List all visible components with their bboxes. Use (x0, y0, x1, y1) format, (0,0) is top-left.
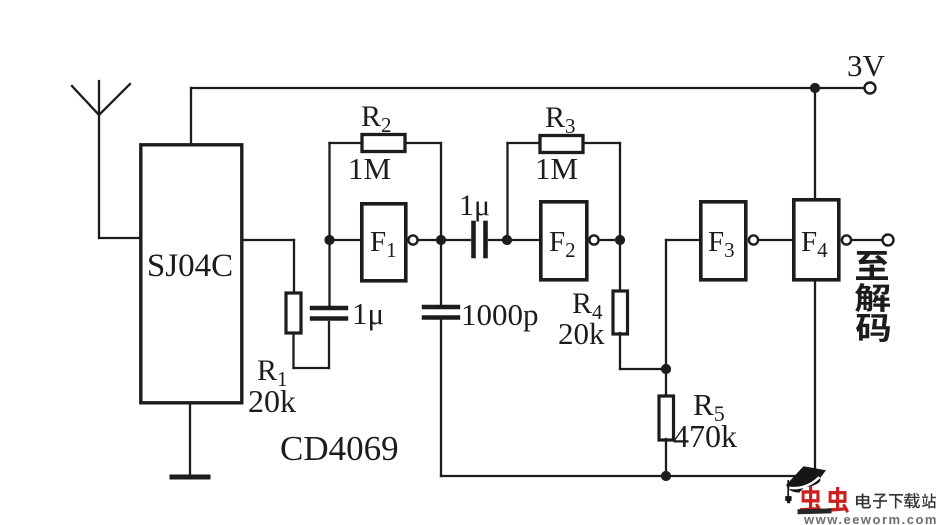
resistor R3 (540, 136, 583, 153)
wire F3 to F4 (759, 239, 792, 241)
wire C2 to bottom rail (440, 320, 442, 477)
wire R2 to node B (405, 143, 441, 240)
wire C3 to node C (489, 239, 539, 241)
svg-text:1μ: 1μ (352, 296, 384, 331)
node B (436, 235, 446, 245)
wire bottom rail (441, 475, 815, 477)
node power rail to F4 supply (810, 83, 820, 93)
label R1 (257, 354, 288, 391)
label R2 (361, 100, 392, 137)
wire F3 input (666, 240, 699, 369)
capacitor C2 1000p (424, 240, 458, 318)
wire antenna to SJ04C (99, 237, 141, 239)
bubble F4 output (842, 235, 851, 244)
svg-text:20k: 20k (248, 383, 296, 419)
label C3 1u (459, 189, 490, 222)
watermark text 电子下载站 (856, 493, 936, 509)
label C1 1u (352, 296, 384, 331)
resistor R5 (659, 396, 674, 440)
svg-text:CD4069: CD4069 (280, 429, 399, 468)
wire node A to R2 loop (330, 143, 362, 240)
watermark logo graduation cap (785, 466, 826, 503)
wire SJ04C output to R1 (243, 240, 294, 292)
inverter F1 (362, 204, 406, 281)
watermark logo 虫虫 (797, 486, 849, 514)
svg-text:www.eeworm.com: www.eeworm.com (803, 512, 937, 525)
label R5 value 470k (673, 418, 737, 454)
wire R1 to C1 junction (294, 322, 330, 368)
inverter F3 (701, 202, 746, 280)
wire node D to R4 (619, 240, 621, 291)
label C2 1000p (461, 297, 539, 332)
wire node C to R3 loop (508, 143, 540, 240)
watermark text www.eeworm.com (803, 512, 937, 525)
bubble F1 output (408, 235, 417, 244)
ground (172, 403, 208, 477)
svg-text:1M: 1M (535, 151, 578, 186)
wire R3 to node D (583, 143, 620, 240)
label to decoder 至 (856, 251, 888, 280)
svg-text:SJ04C: SJ04C (147, 248, 233, 284)
node G bottom rail right (810, 471, 820, 481)
wire 3V power rail (191, 88, 863, 143)
label 3V (847, 48, 886, 83)
capacitor C1 1u shunt (312, 308, 346, 319)
node A F1 input (324, 235, 334, 245)
svg-text:470k: 470k (673, 418, 737, 454)
wire C1 to node A (328, 240, 330, 306)
terminal output to decoder (883, 235, 894, 246)
svg-text:1μ: 1μ (459, 189, 490, 222)
resistor R2 (362, 135, 405, 152)
svg-text:1M: 1M (348, 151, 391, 186)
node E (661, 364, 671, 374)
wire F1 input (330, 239, 361, 241)
svg-text:3V: 3V (847, 48, 886, 83)
wire power to F4 (814, 88, 816, 199)
wire F2 output (599, 239, 620, 241)
label CD4069 (280, 429, 399, 468)
svg-text:1000p: 1000p (461, 297, 539, 332)
IC SJ04C (141, 145, 242, 403)
wire F4 to output terminal (852, 239, 882, 241)
label R4 (572, 287, 603, 324)
svg-text:20k: 20k (558, 316, 605, 351)
label R1 value 20k (248, 383, 296, 419)
inverter F2 (541, 202, 587, 280)
terminal 3V (865, 83, 876, 94)
wire F1 output (418, 239, 470, 241)
bubble F3 output (749, 235, 758, 244)
capacitor C3 1u series (474, 223, 486, 256)
wire F4 to bottom rail (814, 281, 816, 476)
wire node E to R5 (665, 369, 667, 396)
wire R5 to bottom rail (665, 439, 667, 476)
node F bottom rail (661, 471, 671, 481)
resistor R4 (613, 291, 628, 334)
label R4 value 20k (558, 316, 605, 351)
label R2 value 1M (348, 151, 391, 186)
label R3 (545, 101, 576, 138)
label R5 (693, 387, 725, 426)
label R3 value 1M (535, 151, 578, 186)
bubble F2 output (589, 235, 598, 244)
resistor R1 (286, 293, 301, 333)
inverter F4 (794, 200, 839, 280)
label to decoder 解 (855, 283, 890, 312)
wire R4 to node E (620, 333, 666, 369)
node C F2 input (502, 235, 512, 245)
node D (615, 235, 625, 245)
label to decoder 码 (856, 314, 890, 342)
antenna (72, 81, 130, 238)
